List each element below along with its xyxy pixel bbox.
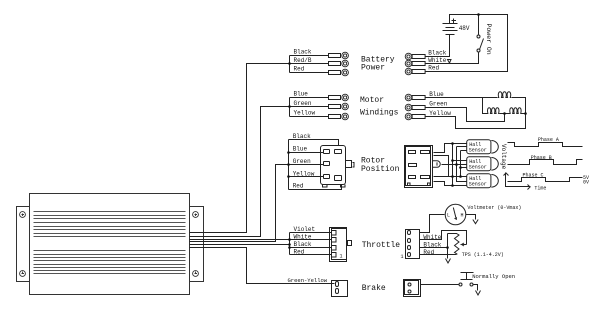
svg-text:Phase C: Phase C [523, 172, 544, 178]
svg-text:Red: Red [428, 65, 439, 72]
svg-text:Power: Power [361, 64, 385, 73]
svg-text:Green: Green [294, 100, 312, 107]
svg-text:Black: Black [293, 133, 311, 140]
svg-text:Blue: Blue [293, 146, 308, 153]
svg-text:L: L [447, 212, 450, 218]
svg-text:Voltmeter (0-Vmax): Voltmeter (0-Vmax) [467, 205, 521, 211]
svg-text:White: White [294, 233, 312, 240]
svg-text:Red/B: Red/B [294, 57, 312, 64]
svg-text:1: 1 [340, 254, 343, 260]
svg-text:Yellow: Yellow [293, 170, 315, 177]
svg-text:Yellow: Yellow [294, 110, 316, 117]
svg-text:Violet: Violet [294, 226, 316, 233]
svg-text:TPS (1.1-4.2V): TPS (1.1-4.2V) [462, 252, 504, 258]
svg-text:0V: 0V [583, 180, 589, 186]
svg-text:Position: Position [361, 165, 400, 174]
svg-text:Power On: Power On [485, 24, 492, 55]
svg-text:Red: Red [293, 183, 304, 190]
svg-text:Brake: Brake [362, 284, 386, 293]
svg-text:Phase A: Phase A [538, 137, 559, 143]
svg-text:Motor: Motor [360, 96, 384, 105]
svg-text:Voltage: Voltage [500, 144, 507, 170]
svg-text:H: H [461, 212, 464, 218]
svg-text:48V: 48V [459, 25, 470, 32]
svg-text:Phase B: Phase B [531, 155, 552, 161]
svg-text:Black: Black [428, 50, 446, 57]
svg-text:Throttle: Throttle [362, 241, 401, 250]
svg-text:Normally Open: Normally Open [472, 273, 515, 280]
svg-text:Time: Time [534, 185, 546, 191]
svg-text:Red: Red [294, 248, 305, 255]
svg-text:Black: Black [294, 49, 312, 56]
svg-text:Red: Red [294, 66, 305, 73]
svg-text:Blue: Blue [294, 91, 309, 98]
svg-text:Black: Black [294, 241, 312, 248]
svg-text:Rotor: Rotor [361, 157, 385, 166]
svg-text:Green-Yellow: Green-Yellow [288, 277, 328, 284]
svg-text:Windings: Windings [360, 108, 399, 117]
svg-text:1: 1 [401, 254, 404, 260]
svg-text:Green: Green [293, 158, 311, 165]
svg-text:Green: Green [429, 101, 447, 108]
